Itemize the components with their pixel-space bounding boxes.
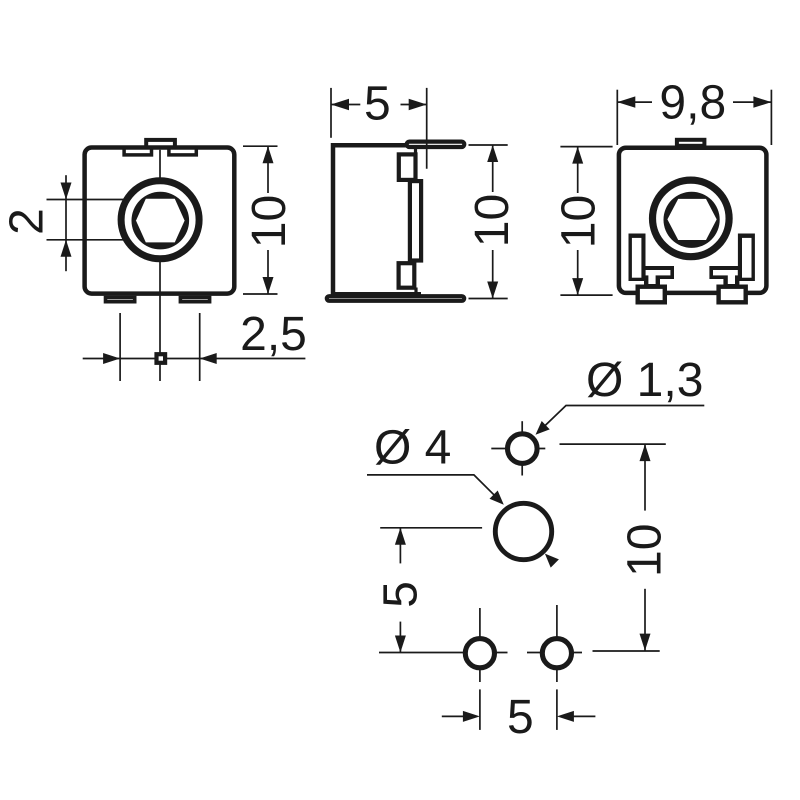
rotor outer ring xyxy=(653,180,730,257)
datum box xyxy=(154,352,167,365)
top tab xyxy=(677,140,705,146)
hole 1,3 crosshair xyxy=(491,448,545,450)
centerline xyxy=(426,88,428,169)
hole 1,3 circle xyxy=(508,434,538,464)
svg-text:Ø 1,3: Ø 1,3 xyxy=(586,354,703,407)
bottom hole right xyxy=(542,639,571,668)
dimension 10 right of side view xyxy=(466,145,519,299)
hex socket xyxy=(136,199,185,243)
bottom holes crosshairs xyxy=(379,652,508,654)
svg-text:Ø 4: Ø 4 xyxy=(374,422,451,475)
bottom tab right xyxy=(180,298,209,302)
bottom edge xyxy=(331,292,421,297)
rotor black disk xyxy=(132,192,190,250)
bottom tab left xyxy=(106,298,135,302)
top edge xyxy=(331,143,415,148)
dimension 2 left of front view xyxy=(1,175,72,271)
svg-text:2: 2 xyxy=(1,208,54,235)
bottom flange capsule xyxy=(327,296,464,301)
right clip xyxy=(709,234,755,305)
leader to hole 4 xyxy=(367,475,502,503)
connector bottom xyxy=(414,288,417,295)
dimension 10 left of back view xyxy=(553,147,613,296)
centerline xyxy=(159,150,161,381)
rotor black disk xyxy=(664,192,720,248)
top flange capsule xyxy=(407,142,465,147)
svg-text:10: 10 xyxy=(243,195,296,248)
left edge xyxy=(331,143,336,296)
dimension 5 above side view xyxy=(331,78,427,138)
hex extension line upper xyxy=(47,199,161,201)
dimension 2,5 below front view xyxy=(83,308,307,381)
hole 4 circle xyxy=(495,503,551,559)
svg-text:2,5: 2,5 xyxy=(240,308,307,361)
dim 10 vertical right xyxy=(560,444,672,651)
terminal rect top xyxy=(399,154,416,180)
leader to hole 1,3 xyxy=(538,406,704,433)
hex extension line lower xyxy=(47,239,161,241)
svg-text:5: 5 xyxy=(507,691,534,744)
top notch left xyxy=(124,148,151,155)
hex socket xyxy=(667,199,716,240)
top notch right xyxy=(169,148,196,155)
connector top xyxy=(414,147,417,154)
dimension 9,8 above back view xyxy=(617,77,771,146)
rotor outer ring xyxy=(121,181,199,259)
bottom hole left xyxy=(465,639,494,668)
svg-text:10: 10 xyxy=(553,195,606,248)
arrowhead SE of hole 4 xyxy=(545,554,559,568)
body outline xyxy=(85,148,235,294)
svg-text:10: 10 xyxy=(619,524,672,577)
body outline xyxy=(619,148,767,293)
terminal long rect xyxy=(410,181,421,260)
svg-text:9,8: 9,8 xyxy=(659,77,726,130)
svg-text:5: 5 xyxy=(364,78,391,131)
left clip xyxy=(629,234,675,305)
top tab xyxy=(146,140,175,148)
dim 5 horizontal bottom xyxy=(442,689,596,744)
terminal rect bottom xyxy=(399,263,415,288)
dimension 10 right of front view xyxy=(243,146,296,294)
svg-text:10: 10 xyxy=(466,194,519,247)
dim 5 vertical left xyxy=(374,528,482,653)
svg-text:5: 5 xyxy=(374,581,427,608)
